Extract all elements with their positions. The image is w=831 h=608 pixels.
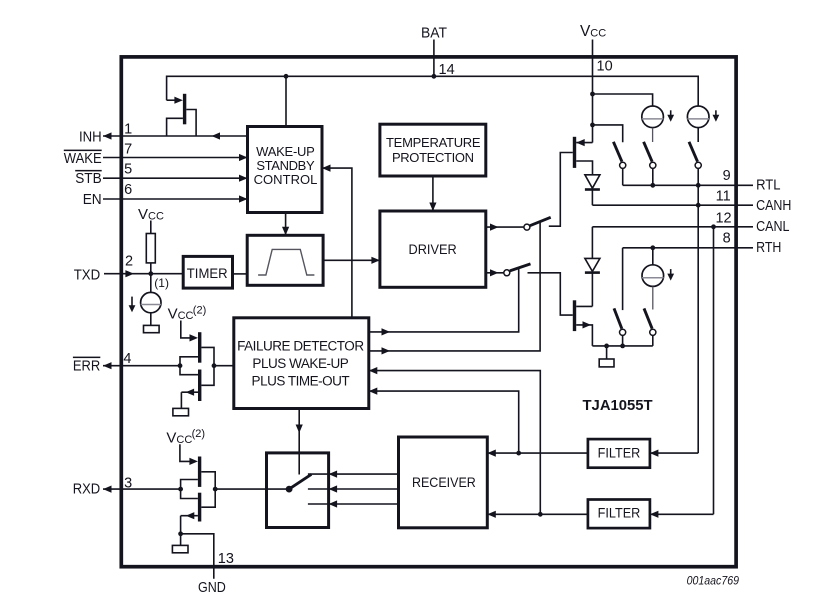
wire CANH tap into filter 1 [650, 452, 698, 454]
arrow current direction beside I1 [667, 110, 674, 122]
node RXD drain [213, 487, 218, 492]
svg-text:CANH: CANH [756, 198, 791, 214]
ground symbol below I4 [144, 325, 160, 332]
pin 13 GND wire [181, 534, 214, 579]
svg-text:GND: GND [198, 580, 226, 596]
node CANL/filter tap [711, 224, 716, 229]
wire selector contact 2 [308, 488, 329, 490]
svg-text:WAKE: WAKE [64, 151, 102, 167]
pin 9 RTL wire [623, 184, 753, 186]
arrow EN input [239, 195, 248, 202]
wire VCC vertical to CANH source [592, 94, 594, 143]
node BAT-rail/wake-up feed [284, 74, 289, 79]
svg-text:11: 11 [716, 189, 731, 205]
wire failure detector input from CANH filter line [369, 391, 519, 453]
label ERR (overlined) [73, 357, 100, 375]
svg-text:BAT: BAT [421, 26, 447, 42]
diode D2 (CANL) [585, 227, 600, 307]
arrow current direction beside I3 [667, 269, 674, 281]
svg-text:DRIVER: DRIVER [409, 241, 457, 257]
label STB (overlined) [75, 170, 102, 187]
wire failure detector input from CANL filter line [369, 371, 541, 515]
wire VCC branch to switch S1 [593, 125, 623, 142]
wire driver output bottom [486, 272, 504, 274]
svg-text:(2): (2) [192, 428, 205, 440]
arrow detector output 1 [382, 328, 391, 335]
label VCC(2) for RXD stage [166, 428, 205, 446]
wire ERR gate bracket [180, 357, 198, 375]
arrow detector input 4 [369, 388, 378, 395]
transistor Q7 (CANL driver NMOS) [573, 300, 593, 346]
node ground tap [604, 344, 609, 349]
pin 14 BAT lead [433, 40, 435, 77]
arrow into wake-up control right edge [322, 165, 331, 172]
wire receiver to selector 2 [329, 488, 399, 490]
label VCC(2) for ERR stage [168, 304, 207, 322]
wire VCC branch to current source I1 [593, 94, 653, 106]
transistor Q4 (RXD PMOS) [180, 444, 201, 487]
block U5 FAILURE DETECTOR PLUS WAKE-UP PLUS TIME-OUT [234, 318, 369, 409]
switch S2 (I1 to RTL) [644, 142, 656, 186]
switch S8 blade (RXD selector) [286, 474, 312, 492]
node BAT pin junction [432, 74, 437, 79]
arrow ERR output [103, 362, 112, 369]
node VCC/switch S1 branch [590, 123, 595, 128]
node I3/RTH [650, 245, 655, 250]
arrow into selector 2 [329, 485, 338, 492]
node S2/RTL [650, 183, 655, 188]
svg-text:TXD: TXD [74, 268, 101, 284]
switch S3 (I2 to RTL) [689, 142, 701, 169]
pin 1 INH wire [103, 135, 248, 137]
pin 10 VCC lead [592, 40, 594, 95]
wire failure detector to RXD switch [298, 409, 300, 475]
arrow into selector 3 [329, 500, 338, 507]
svg-text:STANDBY: STANDBY [256, 158, 315, 173]
svg-text:V: V [138, 206, 148, 223]
node ERR drain [212, 363, 217, 368]
transistor Q5 (RXD NMOS) [181, 493, 202, 546]
arrow into receiver input 1 [487, 450, 496, 457]
arrow driver output top [490, 224, 499, 231]
block RXD output selector box [267, 453, 329, 528]
switch S7 (driver to CANL gate) [504, 264, 573, 315]
node CANH/filter tap [696, 203, 701, 208]
svg-text:RTH: RTH [756, 240, 781, 256]
node RXD ground junction [178, 531, 183, 536]
svg-text:INH: INH [79, 129, 102, 145]
arrow into filter 2 [650, 511, 659, 518]
pin 4 ERR wire [103, 365, 180, 367]
node RXD gate [178, 487, 183, 492]
svg-text:6: 6 [124, 182, 132, 198]
wire RXD drain to switch box [215, 488, 289, 490]
wire RXD gate bracket [181, 480, 198, 499]
pin 12 CANL wire [592, 226, 753, 228]
svg-text:RXD: RXD [73, 482, 101, 498]
transistor Q1 (INH driver) [167, 94, 197, 136]
transistor Q2 (ERR PMOS) [181, 321, 202, 363]
wire selector contact 3 [308, 503, 329, 505]
switch S5 (I3 to ground line) [644, 308, 656, 346]
wire S3 down to CANH filter line [697, 168, 699, 453]
svg-text:V: V [168, 306, 178, 323]
svg-text:2: 2 [125, 253, 133, 269]
current source I2 (RTL to BAT) [687, 106, 709, 142]
node receiver/detector tap 1 [516, 451, 521, 456]
pin 7 WAKE wire [103, 157, 248, 159]
svg-text:10: 10 [597, 59, 613, 75]
wire CANL tap into filter 2 [650, 513, 714, 515]
pin 11 CANH wire [592, 204, 753, 206]
node ERR gate [178, 363, 183, 368]
svg-text:4: 4 [123, 351, 131, 367]
arrow on INH line from wake-up control [212, 132, 221, 139]
svg-text:FAILURE DETECTOR: FAILURE DETECTOR [237, 339, 364, 354]
svg-text:13: 13 [218, 551, 234, 567]
wire filter 1 to receiver [487, 452, 588, 454]
arrow into driver left edge [371, 257, 380, 264]
switch S4 (RTH line) [614, 248, 626, 346]
svg-text:PROTECTION: PROTECTION [392, 150, 474, 165]
arrow INH output (points left out of chip) [103, 132, 112, 139]
svg-text:8: 8 [723, 230, 731, 246]
arrow detector input 3 [369, 367, 378, 374]
arrow driver output bottom [490, 269, 499, 276]
BAT rail wire [167, 76, 699, 106]
block U2 TIMER [183, 256, 232, 288]
pin 3 RXD wire [103, 488, 181, 490]
block U1 WAKE-UP STANDBY CONTROL [248, 127, 323, 213]
wire receiver to selector 1 [329, 473, 399, 475]
node receiver/detector tap 2 [538, 512, 543, 517]
switch S6 (driver to CANH gate) [524, 153, 573, 231]
current source I4 (TXD pull-down) [141, 274, 161, 326]
svg-text:001aac769: 001aac769 [687, 576, 740, 588]
wire filter 2 to receiver [487, 513, 588, 515]
node S4 tap [620, 344, 625, 349]
svg-text:PLUS WAKE-UP: PLUS WAKE-UP [252, 356, 348, 371]
ground symbol below RXD stage [172, 545, 188, 552]
svg-text:FILTER: FILTER [598, 505, 641, 521]
pin 2 TXD wire [104, 273, 183, 275]
block slope control (trapezoid waveform) [247, 235, 323, 285]
wire ERR drain bracket [201, 347, 214, 385]
svg-text:CANL: CANL [756, 219, 789, 235]
arrow into driver top edge [429, 203, 436, 212]
wire TIMER to slope block [233, 273, 248, 275]
switch S1 (VCC to RTL) [613, 142, 625, 186]
svg-text:WAKE-UP: WAKE-UP [256, 144, 315, 159]
node TXD junction [148, 271, 153, 276]
wire wake-up control input from internal node [322, 168, 352, 318]
svg-text:CC: CC [590, 27, 606, 39]
svg-text:ERR: ERR [73, 358, 100, 374]
svg-text:5: 5 [124, 162, 132, 178]
pin 5 STB wire [103, 177, 248, 179]
svg-text:TEMPERATURE: TEMPERATURE [386, 135, 481, 150]
svg-text:RTL: RTL [756, 178, 780, 194]
arrow into selector 1 [329, 471, 338, 478]
wire failure detector output 1 to switch S7 [369, 268, 519, 332]
svg-text:V: V [166, 429, 176, 446]
wire selector contact 1 [308, 473, 329, 475]
wire wake-up control feed from BAT rail [285, 76, 287, 126]
arrow RXD output [103, 486, 112, 493]
ground symbol below ERR stage [173, 408, 189, 415]
pin 8 RTH wire [623, 247, 753, 249]
current source I1 (RTL to VCC) [642, 106, 664, 142]
arrow into receiver input 2 [487, 511, 496, 518]
current source I3 (RTH) [642, 248, 664, 310]
svg-text:12: 12 [715, 210, 731, 226]
block U7 FILTER (CANH) [588, 439, 650, 468]
wire failure detector output 2 to switch S6 [369, 222, 540, 351]
arrow detector output 2 [382, 347, 391, 354]
block U6 RECEIVER [399, 437, 488, 528]
pin 6 EN wire [103, 198, 248, 200]
resistor R1 (TXD pull-up) [146, 221, 155, 274]
arrow detector to RXD switch [296, 425, 303, 434]
wire wake-up control to slope block [285, 213, 287, 236]
label WAKE (overlined) [64, 150, 102, 167]
block U4 DRIVER [380, 211, 486, 287]
svg-text:CC: CC [178, 310, 194, 322]
transistor Q3 (ERR NMOS) [181, 370, 201, 409]
arrow current direction beside I4 [129, 297, 136, 313]
svg-text:CC: CC [176, 434, 192, 446]
svg-text:3: 3 [124, 475, 132, 491]
svg-text:CC: CC [148, 211, 164, 223]
block U8 FILTER (CANL) [588, 500, 650, 529]
label VCC [580, 23, 606, 40]
wire ERR drain to failure detector [214, 365, 234, 367]
diode D1 (CANH) [585, 175, 600, 205]
IC outline (chip boundary box) [121, 57, 736, 567]
arrow current direction beside I2 [713, 110, 720, 122]
arrow STB input [239, 175, 248, 182]
wire driver output top [486, 226, 524, 228]
wire CANL tap down to filter 2 [713, 227, 715, 515]
svg-text:FILTER: FILTER [598, 444, 641, 460]
svg-text:(1): (1) [154, 276, 169, 290]
svg-text:(2): (2) [193, 304, 206, 316]
ground symbol below CANL stage [599, 346, 614, 367]
svg-text:7: 7 [124, 142, 132, 158]
arrow into filter 1 [650, 450, 659, 457]
svg-text:PLUS TIME-OUT: PLUS TIME-OUT [252, 373, 350, 388]
wire receiver to selector 3 [329, 503, 399, 505]
svg-text:RECEIVER: RECEIVER [412, 474, 476, 490]
svg-text:9: 9 [723, 168, 731, 184]
svg-text:CONTROL: CONTROL [254, 172, 318, 187]
svg-text:TJA1055T: TJA1055T [583, 397, 653, 414]
wire slope block to driver [323, 259, 380, 261]
svg-text:STB: STB [75, 171, 102, 187]
node VCC/current-source branch [590, 92, 595, 97]
block U3 TEMPERATURE PROTECTION [380, 124, 486, 176]
svg-text:1: 1 [124, 122, 132, 138]
arrow into slope block [282, 227, 289, 236]
wire temperature protection to driver [432, 176, 434, 211]
svg-text:EN: EN [83, 192, 102, 208]
arrow TXD input [125, 270, 133, 277]
wire RXD drain bracket [201, 472, 215, 507]
svg-text:TIMER: TIMER [187, 265, 228, 281]
transistor Q6 (CANH driver PMOS) [573, 137, 593, 175]
label VCC above resistor [138, 206, 164, 223]
arrow WAKE input [239, 154, 248, 161]
node S3/RTL [696, 183, 701, 188]
svg-text:14: 14 [439, 62, 455, 78]
wire CANL source bottom line [592, 345, 652, 347]
